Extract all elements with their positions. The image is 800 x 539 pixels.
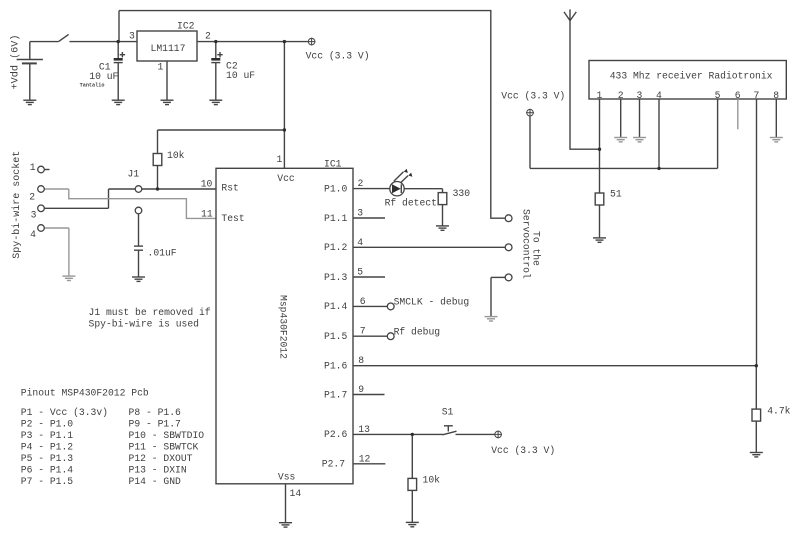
svg-text:J1 must be removed if: J1 must be removed if bbox=[89, 307, 211, 318]
svg-text:Vss: Vss bbox=[278, 472, 296, 483]
svg-text:Pinout MSP430F2012 Pcb: Pinout MSP430F2012 Pcb bbox=[21, 388, 149, 399]
svg-text:Rf debug: Rf debug bbox=[394, 327, 441, 338]
svg-text:51: 51 bbox=[610, 189, 622, 200]
svg-text:P7 - P1.5: P7 - P1.5 bbox=[21, 476, 74, 487]
svg-text:1: 1 bbox=[277, 154, 283, 165]
svg-text:4.7k: 4.7k bbox=[767, 406, 790, 417]
svg-text:Vcc (3.3 V): Vcc (3.3 V) bbox=[501, 91, 565, 102]
svg-text:3: 3 bbox=[31, 209, 37, 220]
svg-text:S1: S1 bbox=[442, 407, 454, 418]
svg-text:10k: 10k bbox=[167, 150, 185, 161]
svg-text:Rst: Rst bbox=[221, 183, 238, 194]
svg-text:P1.2: P1.2 bbox=[324, 242, 347, 253]
svg-text:P1.5: P1.5 bbox=[324, 331, 347, 342]
svg-text:6: 6 bbox=[735, 90, 741, 101]
svg-text:10 uF: 10 uF bbox=[89, 71, 118, 82]
svg-text:P13 - DXIN: P13 - DXIN bbox=[129, 465, 187, 476]
svg-text:+Vdd (6V): +Vdd (6V) bbox=[10, 34, 22, 89]
svg-text:P1.7: P1.7 bbox=[324, 389, 347, 400]
svg-text:330: 330 bbox=[453, 188, 471, 199]
svg-text:2: 2 bbox=[205, 31, 211, 42]
svg-text:P10 - SBWTDIO: P10 - SBWTDIO bbox=[129, 430, 205, 441]
svg-text:7: 7 bbox=[360, 326, 366, 337]
svg-text:P11 - SBWTCK: P11 - SBWTCK bbox=[129, 442, 199, 453]
svg-text:6: 6 bbox=[360, 296, 366, 307]
svg-text:SMCLK - debug: SMCLK - debug bbox=[394, 297, 470, 308]
svg-text:1: 1 bbox=[30, 162, 36, 173]
svg-text:P14 - GND: P14 - GND bbox=[129, 476, 182, 487]
svg-text:7: 7 bbox=[754, 90, 760, 101]
svg-text:Vcc (3.3 V): Vcc (3.3 V) bbox=[306, 51, 370, 62]
svg-text:Rf detect: Rf detect bbox=[385, 197, 437, 208]
svg-text:10: 10 bbox=[201, 179, 213, 190]
svg-text:4: 4 bbox=[357, 237, 363, 248]
svg-text:2: 2 bbox=[358, 178, 364, 189]
svg-text:5: 5 bbox=[357, 267, 363, 278]
svg-text:3: 3 bbox=[637, 90, 643, 101]
svg-text:.01uF: .01uF bbox=[148, 248, 177, 259]
svg-text:12: 12 bbox=[359, 453, 371, 464]
svg-text:Msp430F2012: Msp430F2012 bbox=[278, 295, 289, 359]
svg-text:Tantalio: Tantalio bbox=[80, 82, 105, 88]
svg-text:1: 1 bbox=[158, 62, 164, 73]
svg-text:Vcc: Vcc bbox=[277, 173, 295, 184]
svg-text:10k: 10k bbox=[423, 474, 441, 485]
svg-text:P1.6: P1.6 bbox=[324, 361, 347, 372]
svg-text:Vcc (3.3 V): Vcc (3.3 V) bbox=[491, 445, 555, 456]
svg-text:P3 - P1.1: P3 - P1.1 bbox=[21, 430, 74, 441]
svg-text:P12 - DXOUT: P12 - DXOUT bbox=[129, 453, 193, 464]
svg-text:11: 11 bbox=[201, 208, 213, 219]
svg-text:P8 - P1.6: P8 - P1.6 bbox=[129, 407, 182, 418]
svg-text:Spy-bi-wire socket: Spy-bi-wire socket bbox=[11, 151, 23, 259]
svg-text:3: 3 bbox=[357, 208, 363, 219]
svg-text:P1.1: P1.1 bbox=[324, 213, 347, 224]
svg-text:Servocontrol: Servocontrol bbox=[521, 209, 532, 279]
svg-text:P1.0: P1.0 bbox=[324, 183, 347, 194]
svg-text:Test: Test bbox=[221, 213, 244, 224]
svg-text:9: 9 bbox=[358, 384, 364, 395]
svg-text:P2.7: P2.7 bbox=[322, 459, 345, 470]
svg-text:1: 1 bbox=[597, 90, 603, 101]
svg-text:IC2: IC2 bbox=[177, 21, 195, 32]
svg-text:Spy-bi-wire is used: Spy-bi-wire is used bbox=[89, 318, 199, 329]
svg-text:P4 - P1.2: P4 - P1.2 bbox=[21, 442, 74, 453]
svg-text:J1: J1 bbox=[128, 169, 140, 180]
svg-text:2: 2 bbox=[29, 191, 35, 202]
svg-text:P1.3: P1.3 bbox=[324, 272, 347, 283]
svg-text:LM1117: LM1117 bbox=[151, 43, 186, 54]
svg-text:433 Mhz receiver Radiotronix: 433 Mhz receiver Radiotronix bbox=[610, 71, 773, 82]
svg-text:P2 - P1.0: P2 - P1.0 bbox=[21, 419, 74, 430]
svg-text:P2.6: P2.6 bbox=[324, 429, 347, 440]
svg-text:4: 4 bbox=[30, 229, 36, 240]
svg-text:P5 - P1.3: P5 - P1.3 bbox=[21, 453, 74, 464]
svg-text:P6 - P1.4: P6 - P1.4 bbox=[21, 465, 74, 476]
svg-text:IC1: IC1 bbox=[324, 159, 342, 170]
svg-text:14: 14 bbox=[290, 488, 302, 499]
svg-text:4: 4 bbox=[656, 90, 662, 101]
svg-text:2: 2 bbox=[618, 90, 624, 101]
svg-text:3: 3 bbox=[129, 31, 135, 42]
svg-text:P1 - Vcc (3.3v): P1 - Vcc (3.3v) bbox=[21, 407, 108, 418]
svg-text:8: 8 bbox=[773, 90, 779, 101]
svg-text:P9 - P1.7: P9 - P1.7 bbox=[129, 419, 182, 430]
svg-text:10 uF: 10 uF bbox=[226, 70, 255, 81]
svg-text:8: 8 bbox=[358, 355, 364, 366]
svg-text:13: 13 bbox=[358, 424, 370, 435]
svg-text:P1.4: P1.4 bbox=[324, 301, 347, 312]
svg-text:5: 5 bbox=[715, 90, 721, 101]
